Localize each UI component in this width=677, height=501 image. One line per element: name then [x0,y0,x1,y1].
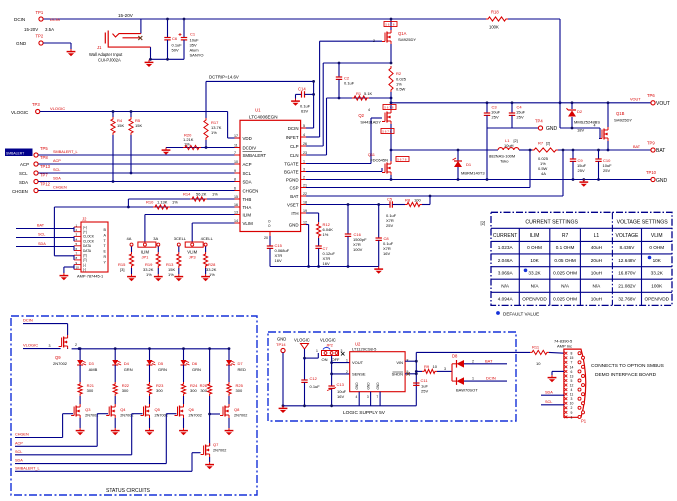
wire PGND/ground rail [306,179,651,181]
svg-text:8.436V: 8.436V [620,245,636,250]
svg-text:300: 300 [156,388,163,393]
svg-text:GND: GND [376,382,380,390]
svg-text:L1: L1 [594,233,600,239]
svg-text:AMP Inc: AMP Inc [557,343,572,348]
LED D7 RED [226,347,246,382]
wire VSET to C8 [378,205,380,239]
resistor R5 [129,110,143,174]
wire 15-20V input rail [41,18,560,20]
svg-text:2N7002: 2N7002 [213,449,226,453]
test point TP8 ACP [20,155,240,167]
resistor R23 [147,382,164,404]
svg-text:AMP-787445-1: AMP-787445-1 [77,274,103,279]
svg-text:6: 6 [571,370,573,374]
svg-text:OPEN/VDD: OPEN/VDD [522,296,547,301]
svg-text:THA: THA [243,205,252,210]
ground (R13) [174,274,183,281]
svg-text:2: 2 [472,359,474,363]
svg-text:4A: 4A [541,171,546,176]
capacitor C3 [484,101,501,128]
wire VIN to R11 [416,351,564,354]
svg-text:7: 7 [234,151,236,155]
svg-text:BAW70SOT: BAW70SOT [456,388,478,393]
svg-text:8: 8 [407,359,409,363]
test point TP4 GND [535,119,558,133]
resistor R9 [416,364,448,374]
svg-text:2N7002: 2N7002 [189,414,202,418]
svg-text:16.870V: 16.870V [618,270,636,275]
svg-text:16V: 16V [323,261,330,266]
ground (R15) [127,274,136,281]
svg-text:2: 2 [571,406,573,410]
svg-text:300: 300 [200,388,207,393]
svg-text:DCTRIP=14.6V: DCTRIP=14.6V [209,75,239,80]
svg-text:Q1A: Q1A [398,31,407,36]
svg-text:100: 100 [414,198,421,203]
svg-text:SMBALERT_L: SMBALERT_L [53,150,78,154]
svg-text:1%: 1% [172,200,178,205]
resistor R20 [183,133,201,150]
svg-text:R7: R7 [562,233,569,239]
svg-text:D3: D3 [89,361,95,366]
capacitor C11 [413,378,428,394]
svg-text:12: 12 [303,220,307,224]
wire DCIN pin riser [301,80,315,128]
ground (input rail) [145,60,154,67]
svg-text:SCL: SCL [15,450,22,454]
svg-text:N/A: N/A [501,283,510,288]
svg-text:1%: 1% [323,232,329,237]
wire LED supply rail [72,348,229,350]
svg-text:2N7002: 2N7002 [85,414,98,418]
svg-text:(+): (+) [83,230,87,234]
svg-text:CONNECTS TO OPTION SMBUS: CONNECTS TO OPTION SMBUS [591,363,664,369]
resistor R22 [113,382,130,404]
svg-text:15-20V: 15-20V [118,13,134,18]
resistor R17 [204,118,222,149]
U1 left pins [234,134,266,226]
svg-text:100K: 100K [651,283,663,288]
svg-text:Q5: Q5 [155,407,161,412]
capacitor C15 [267,236,290,267]
transistor Q4 2N7002 [106,404,133,428]
wire ITH stub [306,213,319,222]
svg-text:50V: 50V [172,48,179,53]
svg-text:DCIN: DCIN [486,376,496,381]
capacitor C8 [376,236,394,267]
svg-text:0 OHM: 0 OHM [649,245,664,250]
svg-text:FDC645N: FDC645N [370,158,388,163]
label P1 note [591,363,664,378]
svg-text:VIN: VIN [396,360,403,365]
svg-text:PGND: PGND [286,177,299,182]
wire SCL gate net [15,414,143,455]
svg-text:GND: GND [16,41,27,46]
wire TGATE to Q2 gate [306,118,382,164]
svg-text:TGATE: TGATE [284,161,298,166]
svg-text:Q3: Q3 [85,407,91,412]
test point TP6 VOUT [630,93,670,107]
svg-text:ON: ON [322,357,328,362]
wire CLN row [306,97,392,155]
svg-text:16V: 16V [275,258,282,263]
svg-text:6: 6 [234,186,236,190]
svg-text:THB: THB [243,197,252,202]
svg-text:1%: 1% [211,130,217,135]
U1 pin 20 bottom stub [264,220,271,241]
svg-text:11: 11 [234,143,238,147]
svg-text:Q2: Q2 [358,113,364,118]
table data [498,245,670,301]
svg-text:RED: RED [238,367,247,372]
svg-text:10: 10 [234,160,238,164]
svg-text:CURRENT: CURRENT [493,233,517,239]
svg-text:300: 300 [122,388,129,393]
svg-text:(-): (-) [83,268,86,272]
svg-text:21.082V: 21.082V [618,283,636,288]
svg-text:12.648V: 12.648V [618,258,636,263]
ground (J2) [60,273,69,280]
svg-text:R1: R1 [356,91,362,96]
svg-text:SDA: SDA [243,179,252,184]
ground (R28) [201,274,210,281]
wire BAT rail [558,149,651,152]
wire R18 to VOUT/D2 node [559,19,562,128]
svg-text:DCDIV: DCDIV [243,145,257,150]
svg-text:4: 4 [356,395,358,399]
svg-text:17: 17 [234,134,238,138]
svg-text:TP8: TP8 [40,155,48,160]
svg-text:VOUT: VOUT [630,98,641,102]
capacitor C16 [345,203,367,268]
jumper JP3 VLIM [174,236,214,260]
svg-text:[2]: [2] [546,142,550,146]
svg-text:CLOCK: CLOCK [83,235,95,239]
svg-text:LTC4006EGN: LTC4006EGN [249,115,278,120]
svg-text:10K: 10K [653,258,662,263]
op-amp U1 LTC4006EGN body [240,108,301,232]
svg-text:SCL: SCL [243,171,252,176]
jumper JP2 VLOGIC [316,338,345,363]
svg-text:0.025 OHM: 0.025 OHM [553,270,577,275]
svg-text:D8: D8 [452,354,458,359]
svg-text:11: 11 [570,393,574,397]
test point TP10 GND [646,170,668,184]
svg-text:10: 10 [536,361,541,366]
svg-text:INFET: INFET [286,135,299,140]
svg-text:15K: 15K [135,123,142,128]
svg-text:1: 1 [303,159,305,163]
wire J2 SCL [16,233,74,242]
svg-text:D7: D7 [238,361,244,366]
capacitor C9 [570,150,587,181]
table column headers [493,233,663,239]
svg-text:22: 22 [303,192,307,196]
svg-text:100K: 100K [489,25,499,30]
test point TP3 VLOGIC [11,102,65,115]
svg-text:VOLTAGE: VOLTAGE [616,233,640,239]
svg-text:25V: 25V [492,115,499,120]
logic supply border [268,332,516,421]
node DCIN (status) [23,318,68,336]
capacitor C1 [179,18,204,60]
svg-text:(T): (T) [83,254,87,258]
svg-text:Q7: Q7 [213,442,219,447]
svg-text:3A: 3A [153,236,158,241]
svg-text:BAT: BAT [633,145,641,149]
wire U1 GND pin to rail [306,225,310,268]
svg-text:SDA: SDA [19,180,28,185]
test point TP12 CHGEN [12,182,240,195]
ground (TP14) [279,406,288,413]
svg-text:4: 4 [571,388,573,392]
svg-text:P1: P1 [581,419,587,424]
LED D3 AMB [77,347,98,382]
svg-text:20uH: 20uH [591,258,602,263]
label J1 [89,45,123,63]
svg-text:GND: GND [367,382,371,390]
svg-text:1.13K: 1.13K [157,200,168,205]
svg-text:SDA: SDA [53,177,61,181]
test point TP2 GND [16,34,71,47]
test point TP1 DCIN [14,10,60,32]
wire CSP sense [306,149,531,188]
svg-text:VLIM: VLIM [243,221,254,226]
svg-text:N/A: N/A [531,283,540,288]
svg-text:SDA: SDA [545,391,553,395]
svg-text:R10: R10 [146,200,154,205]
svg-text:R7: R7 [538,141,544,146]
resistor R1 [352,91,373,100]
svg-text:3: 3 [367,395,369,399]
test point TP9 BAT [633,141,665,155]
svg-text:25V: 25V [386,223,393,228]
wire Q1B gate stub [599,128,600,139]
svg-text:0.1uF: 0.1uF [310,384,321,389]
ground (Q7) [205,462,214,469]
svg-text:2: 2 [346,370,348,374]
svg-text:23: 23 [303,151,307,155]
svg-text:4: 4 [368,108,370,112]
wire VOUT line [391,102,651,104]
capacitor C5 [386,197,397,229]
svg-text:10uH: 10uH [504,143,514,148]
svg-text:R14: R14 [183,192,191,197]
ground (Q5) [145,428,154,435]
svg-text:8: 8 [571,352,573,356]
svg-text:26: 26 [303,142,307,146]
transistor Q11 FDC645N [368,150,409,181]
zener D2 MMSZ5248BS [567,101,601,132]
svg-text:0 OHM: 0 OHM [527,245,542,250]
connector J2 pins [74,223,107,271]
svg-text:VLIM: VLIM [651,233,663,239]
label logic supply [343,410,386,416]
wire DCTRIP line [206,81,314,118]
table header titles [525,220,668,226]
svg-text:15: 15 [234,195,238,199]
svg-text:D5: D5 [158,361,164,366]
svg-text:1: 1 [346,359,348,363]
connector P1 74-8390-5 [554,339,587,424]
svg-text:C1: C1 [190,32,196,37]
svg-text:LT1129CS8-5: LT1129CS8-5 [352,347,377,352]
svg-text:Si4431ADY: Si4431ADY [360,120,381,125]
svg-text:DCIN: DCIN [23,318,33,323]
LED D4 GRN [112,347,133,382]
svg-text:TP14: TP14 [276,342,286,347]
svg-text:13: 13 [570,374,574,378]
svg-text:DCIN: DCIN [14,17,25,22]
label status circuits [106,488,151,494]
wire ACP gate net [15,414,108,447]
svg-text:1%: 1% [212,192,218,197]
svg-text:VSET: VSET [287,202,299,207]
svg-text:4: 4 [594,124,596,128]
svg-text:D6: D6 [192,361,198,366]
svg-text:ACP: ACP [53,159,61,163]
svg-text:D2: D2 [577,109,583,114]
ground (C14) [291,94,300,105]
svg-text:7: 7 [376,395,378,399]
wire BAT sense [306,149,564,198]
svg-text:4CELL: 4CELL [201,236,214,241]
svg-text:AMB: AMB [89,367,98,372]
wire ILIM row [145,215,240,242]
resistor R26 pullup [200,347,212,446]
resistor R12 [317,222,334,246]
wire SMBALERT_L gate net [15,453,201,472]
resistor R18 [486,10,508,30]
svg-text:VLOGIC: VLOGIC [23,343,38,348]
resistor R4 [111,110,125,183]
svg-text:VLOGIC: VLOGIC [11,110,29,115]
svg-text:DEMO INTERFACE BOARD: DEMO INTERFACE BOARD [595,372,657,378]
resistor R2 [389,66,407,104]
svg-text:OPEN/VDD: OPEN/VDD [645,296,670,301]
svg-text:N/A: N/A [592,283,601,288]
test point TP14 GND [276,337,286,408]
svg-text:19: 19 [303,209,307,213]
svg-text:D1: D1 [466,162,472,167]
svg-text:14: 14 [234,219,238,223]
svg-text:12: 12 [570,383,574,387]
svg-text:33.2K: 33.2K [528,270,541,275]
resistor R25 [227,382,244,404]
wire logic ground rail [283,405,416,407]
svg-text:100V: 100V [353,247,363,252]
svg-text:[3]: [3] [120,267,124,272]
svg-text:15-20V: 15-20V [24,27,38,32]
svg-text:C14: C14 [298,87,306,92]
wire THB row [127,199,240,208]
resistor R19 [143,252,160,277]
svg-text:25V: 25V [578,168,585,173]
svg-text:2: 2 [373,39,375,43]
svg-text:TP1: TP1 [36,10,44,15]
svg-text:2: 2 [303,175,305,179]
svg-text:VLOGIC: VLOGIC [294,338,310,343]
svg-text:25V: 25V [421,389,428,394]
svg-text:32.768V: 32.768V [618,296,636,301]
svg-text:SCL: SCL [19,171,28,176]
svg-text:7: 7 [571,361,573,365]
svg-text:5 6 7 8: 5 6 7 8 [397,158,407,162]
node VLOGIC flag (supply) [294,338,318,360]
svg-text:ACP: ACP [15,441,23,445]
svg-text:DEFAULT VALUE: DEFAULT VALUE [503,311,539,316]
wire JP2 to U2 [330,356,350,387]
svg-text:TP2: TP2 [36,34,44,39]
svg-text:GND: GND [355,382,359,390]
diode D8 BAW56SOT [448,354,478,393]
svg-text:10uH: 10uH [591,296,602,301]
svg-text:SMBALERT_L: SMBALERT_L [15,466,40,470]
ground (Q8) [225,428,234,435]
capacitor C7 [315,246,335,268]
svg-text:1%: 1% [146,272,152,277]
svg-text:1.023A: 1.023A [498,245,514,250]
svg-text:3: 3 [444,367,446,371]
test point TP7 SDA [19,173,240,186]
svg-text:VLOGIC: VLOGIC [50,106,65,111]
svg-text:DATA: DATA [83,244,92,248]
transistor Q9 2N7002 [49,335,81,366]
svg-text:8: 8 [234,177,236,181]
svg-text:5: 5 [303,124,305,128]
capacitor C2 [336,63,355,99]
svg-text:TP5: TP5 [40,146,48,151]
svg-text:TP13: TP13 [40,164,51,169]
svg-text:DCIN: DCIN [50,17,60,22]
svg-text:3: 3 [303,167,305,171]
wire P1 SDA [541,391,564,396]
svg-text:1%: 1% [184,142,190,147]
wire BGATE to Q11 gate [306,168,382,172]
svg-text:GRN: GRN [192,367,201,372]
node table ref [2] [481,221,486,226]
ground (output caps) [579,178,588,187]
svg-text:C5: C5 [387,197,393,202]
svg-text:C11: C11 [421,378,429,383]
svg-text:Q6: Q6 [189,407,195,412]
svg-text:4: 4 [303,133,305,137]
transistor Q3 2N7002 [71,404,98,428]
wire J2 thermistor tie [73,255,75,260]
node 15-20V label [118,13,134,18]
node SMBALERT flag [5,149,33,157]
svg-text:R: R [104,255,107,259]
svg-text:5: 5 [571,379,573,383]
svg-text:3.5A: 3.5A [45,27,54,32]
svg-text:Wall Adapter Input: Wall Adapter Input [89,52,123,57]
svg-text:JP3: JP3 [189,255,197,260]
svg-text:D4: D4 [124,361,130,366]
svg-text:5 6 7 8: 5 6 7 8 [382,130,392,134]
svg-text:GRN: GRN [158,367,167,372]
svg-text:TP6: TP6 [647,93,655,98]
svg-text:16: 16 [234,203,238,207]
svg-text:0.5W: 0.5W [396,87,406,92]
svg-text:21: 21 [303,183,307,187]
transistor Q8 2N7002 [220,404,247,428]
wire Q7 drain to Q8 gate [210,413,220,415]
svg-text:JP2: JP2 [326,343,334,348]
ground (Q3) [76,428,85,435]
svg-text:SMBALERT: SMBALERT [6,151,24,155]
svg-text:SCL: SCL [545,400,552,404]
svg-text:3: 3 [49,344,51,348]
